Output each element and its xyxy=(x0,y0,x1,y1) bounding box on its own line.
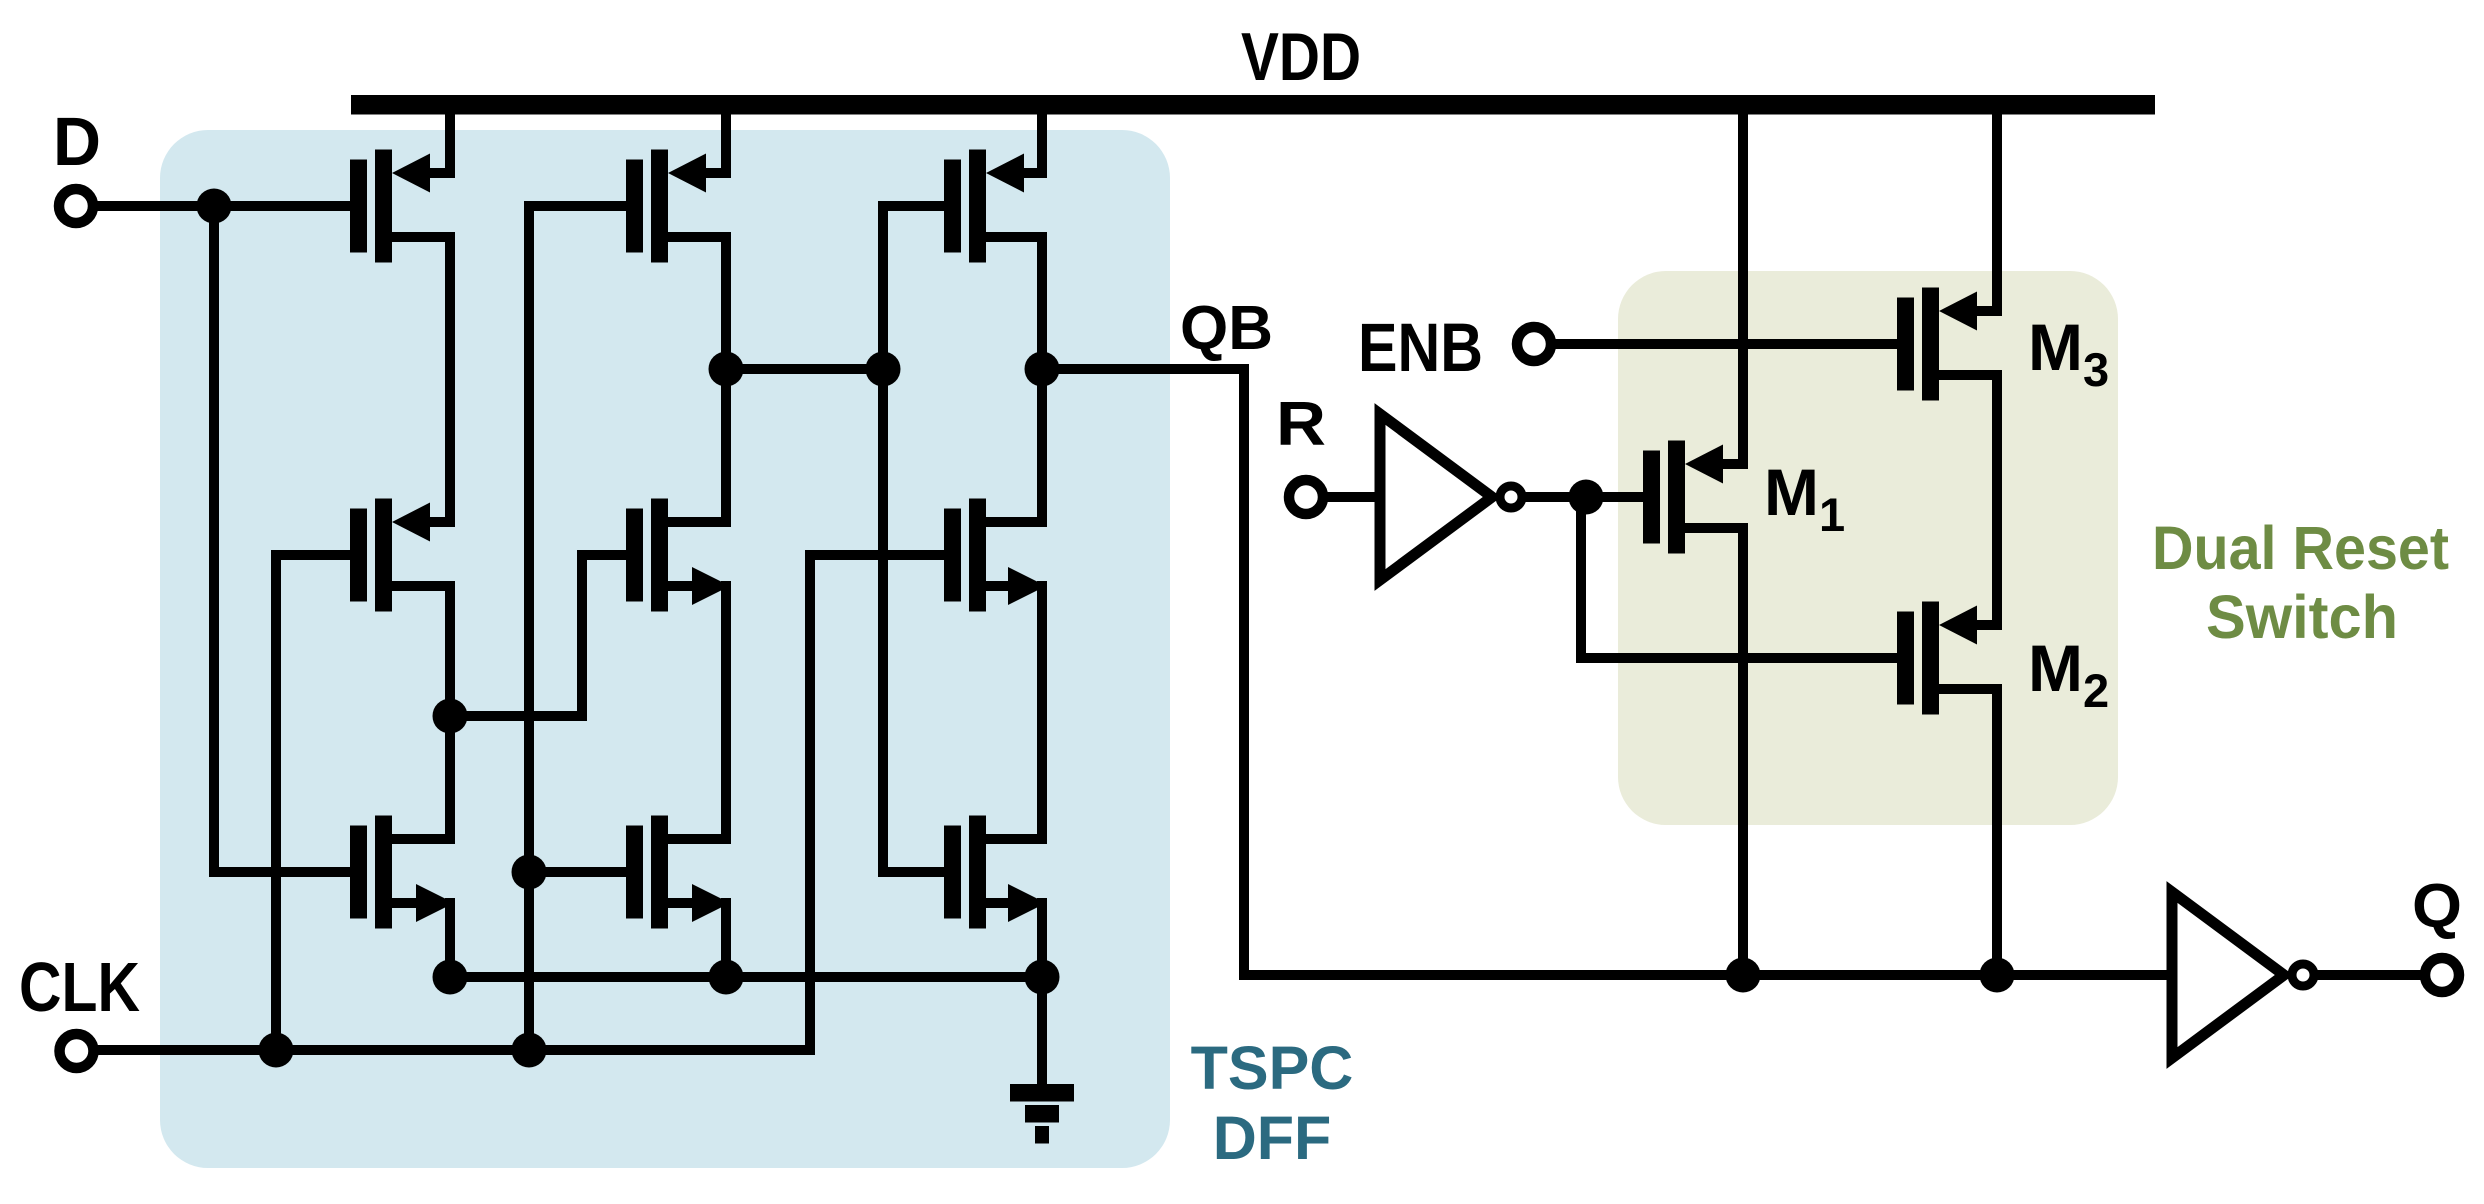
node gnd rail junction 2 xyxy=(709,960,744,995)
wire T9 source to gnd rail xyxy=(1037,898,1047,982)
node1 junction (stage1 out) xyxy=(433,699,468,734)
wire QB horizontal xyxy=(1042,364,1244,374)
wire node1 up to T5 gate xyxy=(577,550,587,721)
transistor T2 (PMOS) xyxy=(626,150,731,263)
wire VDD to M3 source xyxy=(1992,107,2002,316)
wire T7 source to gnd rail xyxy=(445,898,455,982)
svg-text:Dual Reset: Dual Reset xyxy=(2152,514,2449,582)
wire col3 VDD to T3 source xyxy=(1037,107,1047,178)
wire node2 down to T5 drain xyxy=(721,364,731,527)
wire node2 horizontal xyxy=(726,364,883,374)
node Q line junction M1 xyxy=(1726,958,1761,993)
wire CLK vertical to T4 gate xyxy=(271,550,281,1055)
wire T5 source to T8 drain xyxy=(721,581,731,844)
transistor T8 (NMOS) xyxy=(626,816,731,929)
transistor M1 (PMOS) xyxy=(1643,441,1748,554)
svg-text:VDD: VDD xyxy=(1241,19,1361,95)
wire gnd rail horizontal xyxy=(450,972,1042,982)
wire R input to inverter xyxy=(1327,492,1380,502)
node T8 gate junction xyxy=(512,855,547,890)
wire T6 source to T9 drain xyxy=(1037,581,1047,844)
transistor M3 (PMOS) xyxy=(1897,288,2002,401)
terminal CLK xyxy=(60,1034,94,1068)
wire D input to T1 gate xyxy=(96,201,350,211)
transistor T4 (PMOS) xyxy=(350,499,455,612)
wire M3 drain to M2 source xyxy=(1992,370,2002,630)
terminal D xyxy=(59,189,93,223)
wire node2 up to T3 gate xyxy=(878,201,888,374)
wire QB down to Q line xyxy=(1239,364,1249,980)
node gnd rail junction 1 xyxy=(433,960,468,995)
wire T3 drain to QB node xyxy=(1037,232,1047,374)
VDD power rail xyxy=(351,95,2155,115)
wire CLK line xyxy=(97,1045,810,1055)
wire T2 drain to node2 xyxy=(721,232,731,374)
wire T2 gate horizontal xyxy=(529,201,626,211)
TSPC DFF region box xyxy=(160,130,1170,1168)
wire T8 source to gnd rail xyxy=(721,898,731,982)
node CLK junction 1 xyxy=(259,1033,294,1068)
svg-text:Switch: Switch xyxy=(2206,583,2398,651)
node Q line junction M2 xyxy=(1980,958,2015,993)
svg-text:R: R xyxy=(1276,390,1326,459)
inverter U1 (reset inverter) xyxy=(1380,414,1522,580)
svg-text:CLK: CLK xyxy=(19,948,140,1026)
transistor T3 (PMOS) xyxy=(944,150,1047,263)
wire col1 VDD to T1 source xyxy=(445,107,455,178)
wire T8 gate horizontal xyxy=(529,867,626,877)
wire col2 VDD to T2 source xyxy=(721,107,731,178)
node2 junction a (stage2 out) xyxy=(709,352,744,387)
node QB junction xyxy=(1025,352,1060,387)
wire D node down to T7 gate xyxy=(209,201,219,877)
wire Rb down xyxy=(1576,492,1586,663)
wire QB node down to T6 drain xyxy=(1037,364,1047,527)
node gnd rail junction 3 xyxy=(1025,960,1060,995)
svg-text:QB: QB xyxy=(1180,294,1273,363)
wire VDD to M1 source xyxy=(1738,107,1748,469)
wire Q line xyxy=(1244,970,2172,980)
ground symbol xyxy=(1010,1084,1074,1144)
node CLK junction 2 xyxy=(512,1033,547,1068)
wire T3 gate horizontal xyxy=(883,201,944,211)
node D junction xyxy=(197,189,232,224)
wire M1 drain to Q line xyxy=(1738,523,1748,980)
wire inverter out to M1 gate xyxy=(1524,492,1643,502)
wire T9 gate horizontal xyxy=(883,867,944,877)
wire node2 down to T9 gate xyxy=(878,364,888,877)
terminal ENB xyxy=(1517,327,1551,361)
transistor M2 (PMOS) xyxy=(1897,602,2002,715)
wire Rb to M2 gate xyxy=(1581,653,1897,663)
Dual Reset Switch region box xyxy=(1618,271,2118,825)
svg-text:ENB: ENB xyxy=(1358,309,1483,386)
node Rb junction xyxy=(1569,480,1604,515)
wire inverter U2 output to Q terminal xyxy=(2317,970,2422,980)
wire T4 drain to T7 drain xyxy=(445,581,455,844)
wire node1 horizontal xyxy=(450,711,582,721)
wire T1 drain to T4 source xyxy=(445,232,455,527)
terminal Q xyxy=(2425,958,2459,992)
inverter U2 (output inverter) xyxy=(2172,892,2314,1058)
transistor T6 (NMOS) xyxy=(944,499,1047,612)
transistor T7 (NMOS) xyxy=(350,816,455,929)
node2 junction b xyxy=(866,352,901,387)
wire gnd rail down to ground xyxy=(1037,972,1047,1095)
wire ENB to M3 gate xyxy=(1555,339,1897,349)
wire CLK vertical col3 xyxy=(805,550,815,1055)
wire T5 gate horizontal xyxy=(582,550,626,560)
transistor T9 (NMOS) xyxy=(944,816,1047,929)
wire T4 gate horizontal xyxy=(276,550,350,560)
terminal R xyxy=(1289,480,1323,514)
wire T6 gate horizontal xyxy=(810,550,944,560)
wire T7 gate horizontal xyxy=(214,867,350,877)
svg-text:Q: Q xyxy=(2412,872,2462,941)
wire M2 drain to Q line xyxy=(1992,684,2002,980)
svg-text:D: D xyxy=(53,103,101,180)
transistor T1 (PMOS) xyxy=(350,150,455,263)
wire CLK vertical col2 xyxy=(524,201,534,1055)
transistor T5 (NMOS) xyxy=(626,499,731,612)
